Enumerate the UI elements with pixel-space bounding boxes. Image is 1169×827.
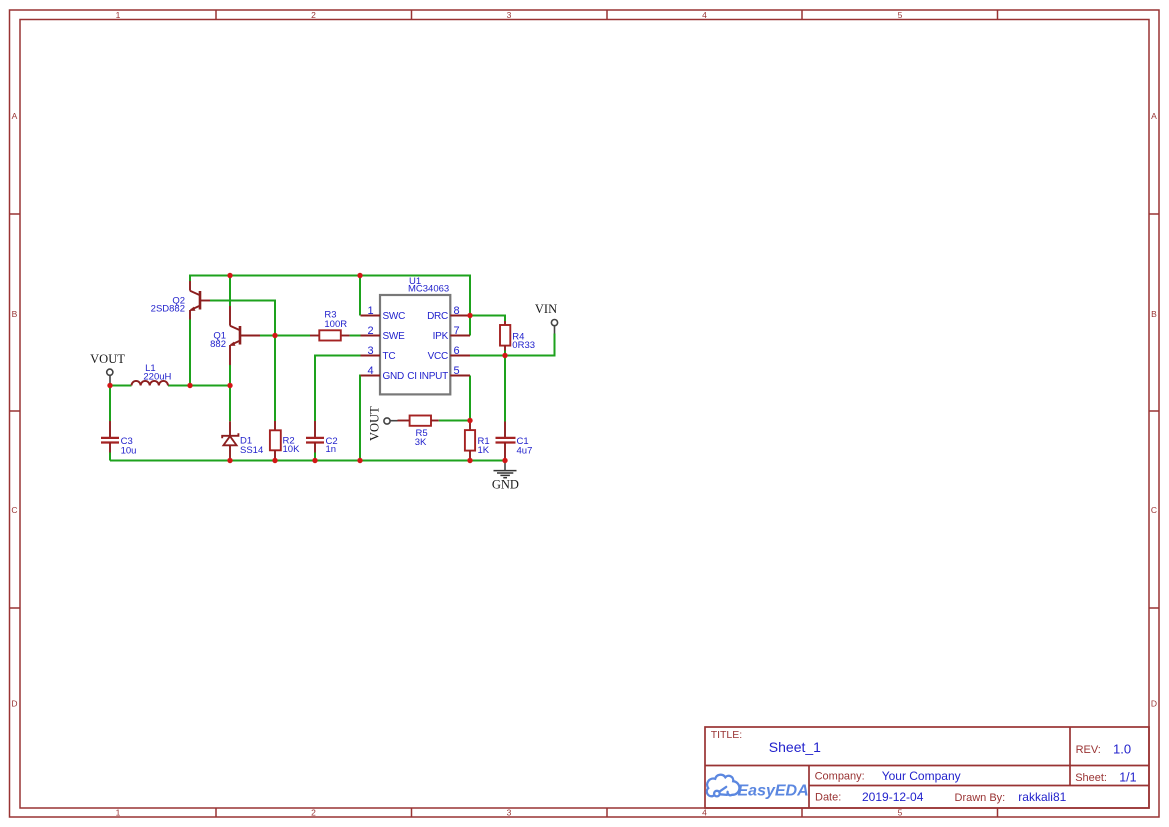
diode D1 xyxy=(222,421,263,460)
svg-text:VOUT: VOUT xyxy=(90,352,125,366)
svg-text:220uH: 220uH xyxy=(143,372,171,383)
svg-text:TC: TC xyxy=(383,351,396,362)
wire xyxy=(110,385,230,387)
svg-text:6: 6 xyxy=(453,345,459,357)
svg-text:7: 7 xyxy=(453,325,459,337)
wire xyxy=(110,460,505,462)
svg-text:3: 3 xyxy=(367,345,373,357)
svg-text:SWC: SWC xyxy=(383,311,406,322)
junction xyxy=(227,383,232,388)
transistor Q1 xyxy=(210,306,260,365)
svg-text:B: B xyxy=(12,309,18,319)
wire xyxy=(229,365,231,386)
wire xyxy=(314,453,316,461)
svg-text:1n: 1n xyxy=(326,444,337,455)
wire xyxy=(109,386,111,422)
svg-text:VCC: VCC xyxy=(428,351,448,362)
pin 6 VCC xyxy=(450,355,470,357)
svg-text:VIN: VIN xyxy=(535,302,557,316)
junction xyxy=(502,353,507,358)
junction xyxy=(502,458,507,463)
svg-text:2: 2 xyxy=(311,10,316,20)
svg-text:3: 3 xyxy=(507,10,512,20)
junction xyxy=(357,273,362,278)
svg-text:4: 4 xyxy=(367,365,373,377)
svg-text:GND: GND xyxy=(383,371,405,382)
net flag VIN xyxy=(535,302,558,334)
svg-text:1.0: 1.0 xyxy=(1113,742,1131,757)
capacitor C3 xyxy=(101,421,136,456)
svg-text:A: A xyxy=(12,111,18,121)
svg-text:3K: 3K xyxy=(415,437,427,448)
wire xyxy=(359,276,361,316)
junction xyxy=(467,458,472,463)
junction xyxy=(467,313,472,318)
wire xyxy=(260,335,275,337)
wire xyxy=(360,376,361,461)
resistor R3 xyxy=(310,310,350,341)
svg-text:2019-12-04: 2019-12-04 xyxy=(862,790,924,804)
resistor R2 xyxy=(270,421,300,461)
junction xyxy=(107,383,112,388)
svg-text:B: B xyxy=(1151,309,1157,319)
svg-text:1: 1 xyxy=(116,10,121,20)
wire xyxy=(315,356,361,422)
svg-text:2SD882: 2SD882 xyxy=(151,304,185,315)
wire xyxy=(439,420,470,422)
wire xyxy=(470,316,505,322)
wire xyxy=(229,386,231,422)
junction xyxy=(312,458,317,463)
svg-text:10K: 10K xyxy=(283,444,301,455)
svg-text:0R33: 0R33 xyxy=(512,340,535,351)
pin 5 CI INPUT xyxy=(450,375,470,377)
pin 2 SWE xyxy=(361,335,381,337)
junction xyxy=(272,458,277,463)
svg-text:2: 2 xyxy=(311,808,316,818)
svg-text:2: 2 xyxy=(367,325,373,337)
wire xyxy=(229,276,231,307)
wire xyxy=(504,356,506,422)
svg-text:Sheet_1: Sheet_1 xyxy=(769,739,821,755)
junction xyxy=(467,418,472,423)
pin 8 DRC xyxy=(450,315,470,317)
wire xyxy=(470,334,555,356)
svg-text:5: 5 xyxy=(898,808,903,818)
svg-text:CI INPUT: CI INPUT xyxy=(407,371,448,382)
svg-text:1K: 1K xyxy=(478,445,490,456)
svg-text:Sheet:: Sheet: xyxy=(1075,772,1107,784)
svg-text:100R: 100R xyxy=(324,319,347,330)
svg-text:4u7: 4u7 xyxy=(517,445,533,456)
IC U1 MC34063 xyxy=(361,276,471,394)
capacitor C2 xyxy=(306,421,338,455)
svg-text:Date:: Date: xyxy=(815,792,841,804)
svg-text:DRC: DRC xyxy=(427,311,448,322)
svg-text:1: 1 xyxy=(367,305,373,317)
svg-text:IPK: IPK xyxy=(433,331,449,342)
net flag VOUT xyxy=(90,352,125,386)
svg-text:C: C xyxy=(1151,505,1157,515)
wire xyxy=(350,335,361,337)
wire xyxy=(504,351,506,356)
svg-text:MC34063: MC34063 xyxy=(408,284,449,295)
svg-text:TITLE:: TITLE: xyxy=(711,729,743,741)
wire xyxy=(190,276,470,336)
svg-text:10u: 10u xyxy=(121,445,137,456)
pin 4 GND xyxy=(361,375,381,377)
junction xyxy=(187,383,192,388)
svg-text:D: D xyxy=(11,699,17,709)
svg-text:4: 4 xyxy=(702,808,707,818)
junction xyxy=(227,458,232,463)
svg-text:SWE: SWE xyxy=(383,331,406,342)
junction xyxy=(357,458,362,463)
svg-text:4: 4 xyxy=(702,10,707,20)
svg-text:8: 8 xyxy=(453,305,459,317)
pin 7 IPK xyxy=(450,335,470,337)
svg-text:3: 3 xyxy=(507,808,512,818)
pin 3 TC xyxy=(361,355,381,357)
svg-text:1/1: 1/1 xyxy=(1119,771,1136,785)
pin 1 SWC xyxy=(361,315,381,317)
capacitor C1 xyxy=(496,422,533,461)
ground xyxy=(492,461,519,492)
transistor Q2 xyxy=(151,281,210,320)
wire xyxy=(109,453,111,461)
svg-text:A: A xyxy=(1151,111,1157,121)
svg-text:GND: GND xyxy=(492,477,519,491)
resistor R1 xyxy=(465,421,490,461)
svg-text:VOUT: VOUT xyxy=(367,406,381,441)
svg-text:rakkali81: rakkali81 xyxy=(1018,790,1066,804)
junction xyxy=(272,333,277,338)
svg-text:Drawn By:: Drawn By: xyxy=(955,792,1006,804)
junction xyxy=(227,273,232,278)
wire xyxy=(469,376,471,421)
svg-text:C: C xyxy=(11,505,17,515)
svg-text:REV:: REV: xyxy=(1076,744,1101,756)
resistor R4 xyxy=(500,321,535,351)
svg-text:1: 1 xyxy=(116,808,121,818)
inductor L1 xyxy=(132,363,172,386)
svg-text:5: 5 xyxy=(898,10,903,20)
svg-text:SS14: SS14 xyxy=(240,445,263,456)
svg-text:5: 5 xyxy=(453,365,459,377)
resistor R5 xyxy=(398,416,439,449)
net flag VOUT (feedback) xyxy=(367,406,397,441)
wire xyxy=(189,320,191,386)
svg-text:Your Company: Your Company xyxy=(882,769,961,783)
svg-text:EasyEDA: EasyEDA xyxy=(738,783,809,800)
svg-text:Company:: Company: xyxy=(815,771,865,783)
svg-text:D: D xyxy=(1151,699,1157,709)
wire xyxy=(210,301,275,422)
wire xyxy=(275,335,310,337)
svg-text:882: 882 xyxy=(210,339,226,350)
